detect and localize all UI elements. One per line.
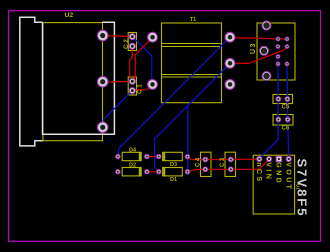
svg-text:C5: C5 (282, 105, 290, 111)
svg-text:C3: C3 (220, 156, 226, 167)
svg-text:C2: C2 (123, 38, 130, 49)
svg-text:U3: U3 (250, 42, 257, 54)
svg-text:C6: C6 (282, 126, 290, 132)
svg-text:U2: U2 (65, 12, 74, 19)
svg-text:VIN: VIN (265, 162, 272, 181)
svg-text:VOUT: VOUT (284, 162, 291, 191)
svg-text:C4: C4 (196, 156, 202, 167)
svg-text:D1: D1 (170, 177, 177, 183)
svg-text:nCS: nCS (255, 162, 262, 183)
svg-text:D2: D2 (129, 163, 136, 169)
svg-text:D3: D3 (170, 162, 177, 168)
svg-text:C1: C1 (136, 83, 143, 94)
svg-text:D4: D4 (129, 147, 137, 153)
svg-text:T1: T1 (190, 17, 196, 23)
svg-text:GND: GND (275, 162, 282, 185)
svg-text:S7V8F5: S7V8F5 (294, 159, 309, 218)
